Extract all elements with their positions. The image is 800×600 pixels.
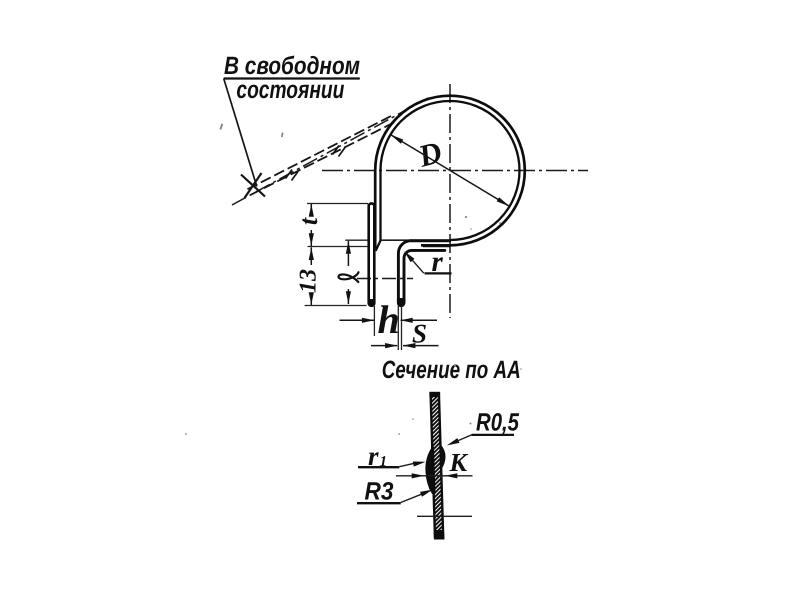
foot top thick line: [411, 239, 451, 242]
arrowhead h right: [400, 318, 413, 323]
outer flat bottom reinforcement: [423, 244, 450, 247]
svg-text:состоянии: состоянии: [236, 76, 344, 104]
arrowhead r1: [413, 462, 426, 467]
dimension line l: [347, 241, 349, 266]
section trace line A-A through legs: [357, 278, 413, 280]
end cross mark X on free-state axis: [241, 173, 265, 198]
arrowhead D upper-left: [390, 134, 403, 143]
dimension line K: [396, 475, 473, 477]
arrowhead h left: [362, 318, 375, 323]
break jog in dashed strip: [286, 146, 346, 181]
left free-end strip (stadium outline): [369, 203, 375, 305]
arrowhead t bottom: [309, 233, 314, 246]
arrowhead K right: [445, 473, 458, 478]
section strip bottom cap: [434, 530, 445, 540]
svg-text:D: D: [414, 134, 446, 174]
leader line r: [407, 254, 424, 274]
arrowhead l top: [346, 241, 351, 254]
diameter dimension line D: [390, 134, 510, 206]
arrowhead t top: [309, 204, 314, 217]
svg-text:h: h: [378, 297, 400, 342]
svg-text:R0,5: R0,5: [476, 409, 520, 437]
bead left bulge (filled): [425, 447, 435, 495]
left free-end strip bottom cap fill: [368, 299, 376, 307]
left free-end strip top cap fill: [368, 204, 376, 209]
extension line bottom of legs: [305, 305, 367, 307]
arrowhead S left: [385, 343, 398, 348]
svg-text:13: 13: [296, 269, 322, 293]
leader line R3: [401, 494, 422, 502]
leader line r1: [399, 463, 416, 467]
bead right bulge (filled): [440, 444, 446, 470]
clamp outer contour: left tangent, outer circle, flat bottom: [375, 96, 525, 248]
arrowhead R3: [420, 490, 433, 497]
vertical centerline of loop: [449, 84, 451, 318]
free-state strip dashed outline upper line: [248, 115, 395, 190]
extension line at strip end level: [308, 246, 369, 248]
clamp inner contour: bevel end, inner tangent, inner circle: [376, 101, 520, 251]
inner flat bottom thin line: [381, 239, 449, 241]
arrowhead l bottom: [346, 291, 351, 304]
right leg bottom cap fill: [397, 298, 406, 307]
note leader line: [224, 79, 257, 187]
extension line at foot inner level: [345, 239, 367, 241]
arrowhead D lower-right: [497, 197, 510, 206]
svg-text:К: К: [449, 448, 469, 477]
right leg outline with bend radius r and bottom cap: [398, 241, 444, 305]
svg-text:t: t: [294, 217, 323, 225]
arrowhead r leader: [404, 251, 414, 262]
arrowhead 13 bottom: [309, 292, 314, 305]
extension line for h left: [373, 306, 375, 336]
thin extension lines of leg thickness below right leg: [397, 306, 399, 350]
svg-text:Сечение по АА: Сечение по АА: [382, 356, 521, 384]
free-state axis dash-dot line: [232, 98, 428, 205]
lower reference line in section: [417, 515, 472, 517]
svg-text:R3: R3: [365, 478, 394, 506]
dimension line S: [371, 345, 397, 347]
free-state strip dashed outline lower line: [251, 121, 398, 195]
note underline: [224, 77, 360, 79]
arrowhead S right: [403, 343, 416, 348]
horizontal centerline of loop: [322, 170, 588, 172]
scan noise speckles: [185, 123, 522, 434]
arrowhead R0,5: [447, 438, 460, 445]
arrowhead K left: [412, 473, 425, 478]
dimension line t: [310, 204, 312, 214]
label l script (rotated): [339, 272, 359, 282]
arrowhead 13 top: [309, 248, 314, 261]
svg-text:S: S: [412, 319, 427, 349]
section strip outline: [431, 394, 444, 538]
section strip hatch lines: [423, 370, 447, 570]
leader line R0,5: [450, 435, 472, 444]
dimension line h: [340, 319, 375, 321]
extension line top of free end: [307, 203, 368, 205]
section strip top cap: [429, 392, 440, 397]
dimension line 13: [310, 247, 312, 265]
